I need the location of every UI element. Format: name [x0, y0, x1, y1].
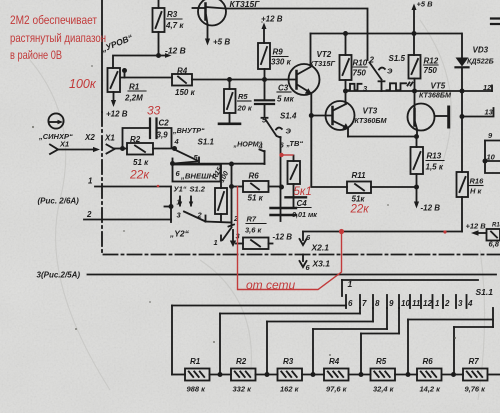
svg-text:Н к: Н к — [470, 187, 483, 196]
svg-text:11: 11 — [412, 299, 421, 308]
svg-text:S1.1: S1.1 — [476, 287, 494, 297]
svg-text:R5: R5 — [376, 357, 387, 366]
svg-text:4: 4 — [174, 137, 180, 146]
svg-text:C4: C4 — [297, 199, 308, 208]
svg-text:C2: C2 — [159, 119, 170, 128]
svg-text:R14: R14 — [492, 223, 500, 229]
svg-text:X1: X1 — [104, 134, 115, 143]
svg-text:3: 3 — [458, 299, 463, 308]
svg-text:(Рис. 2/6А): (Рис. 2/6А) — [38, 197, 80, 206]
svg-text:4,7 к: 4,7 к — [165, 21, 184, 30]
svg-text:-12 В: -12 В — [273, 233, 293, 242]
svg-text:R6: R6 — [249, 172, 260, 181]
svg-text:2: 2 — [197, 211, 203, 220]
svg-text:+12 В: +12 В — [261, 15, 283, 24]
svg-text:R4: R4 — [329, 357, 340, 366]
svg-text:1: 1 — [177, 200, 181, 207]
svg-text:R2: R2 — [236, 357, 247, 366]
svg-text:R2: R2 — [130, 135, 141, 144]
svg-text:162 к: 162 к — [280, 385, 300, 394]
svg-text:1,5 к: 1,5 к — [426, 163, 444, 172]
svg-text:22к: 22к — [350, 204, 370, 216]
svg-text:X3.1: X3.1 — [312, 259, 331, 269]
svg-text:X2: X2 — [84, 133, 95, 142]
svg-text:+5 В: +5 В — [417, 0, 434, 9]
svg-text:988 к: 988 к — [187, 385, 207, 394]
svg-text:VD3: VD3 — [473, 46, 489, 55]
svg-text:9: 9 — [389, 299, 394, 308]
svg-text:2,2М: 2,2М — [124, 94, 143, 103]
svg-text:R13: R13 — [427, 152, 442, 161]
svg-text:КТ315Г: КТ315Г — [230, 0, 261, 9]
svg-text:2М2 обеспечивает: 2М2 обеспечивает — [10, 13, 97, 27]
svg-text:„ВНУТР“: „ВНУТР“ — [172, 126, 205, 135]
svg-text:6,8: 6,8 — [489, 240, 500, 249]
svg-text:R11: R11 — [352, 171, 367, 180]
svg-text:растянутый диапазон: растянутый диапазон — [10, 31, 106, 45]
svg-text:X2.1: X2.1 — [311, 243, 330, 253]
svg-text:КТ360БМ: КТ360БМ — [355, 116, 388, 125]
svg-text:R12: R12 — [424, 57, 439, 66]
svg-text:1: 1 — [214, 238, 218, 247]
svg-text:3(Рис.2/5А): 3(Рис.2/5А) — [37, 271, 81, 280]
svg-text:S1.5: S1.5 — [389, 54, 406, 63]
svg-text:VT5: VT5 — [431, 82, 446, 91]
svg-text:32,4 к: 32,4 к — [373, 385, 395, 394]
svg-text:33: 33 — [147, 104, 161, 118]
svg-text:S1.1: S1.1 — [198, 138, 215, 147]
svg-text:VT2: VT2 — [317, 50, 332, 59]
svg-text:97,6 к: 97,6 к — [326, 385, 348, 394]
svg-text:3,9: 3,9 — [157, 131, 169, 140]
svg-text:У1“: У1“ — [174, 185, 187, 194]
svg-text:S1.4: S1.4 — [280, 112, 297, 121]
svg-text:10: 10 — [401, 299, 410, 308]
svg-text:R16: R16 — [470, 177, 485, 186]
svg-text:100к: 100к — [69, 77, 97, 91]
svg-text:2: 2 — [86, 210, 92, 219]
svg-text:R3: R3 — [167, 10, 178, 19]
svg-text:22к: 22к — [129, 168, 150, 182]
svg-text:R4: R4 — [177, 67, 188, 76]
svg-text:750: 750 — [353, 69, 367, 78]
svg-text:6: 6 — [348, 299, 353, 308]
svg-text:1: 1 — [88, 177, 93, 186]
svg-text:КТ315Г: КТ315Г — [309, 59, 335, 68]
svg-text:от сети: от сети — [246, 278, 296, 292]
svg-text:13: 13 — [485, 108, 494, 117]
svg-text:R10: R10 — [353, 59, 368, 68]
svg-text:R6: R6 — [423, 357, 434, 366]
svg-text:4: 4 — [258, 142, 264, 151]
svg-text:3,6 к: 3,6 к — [245, 226, 263, 235]
svg-text:1: 1 — [435, 299, 440, 308]
svg-text:+12 В: +12 В — [466, 222, 487, 231]
svg-text:750: 750 — [424, 66, 438, 75]
svg-text:20 к: 20 к — [237, 104, 253, 113]
svg-text:2: 2 — [369, 56, 375, 65]
svg-text:R1: R1 — [129, 83, 140, 92]
svg-text:X1: X1 — [59, 140, 69, 149]
svg-text:0,01 мк: 0,01 мк — [292, 210, 317, 219]
svg-text:9,76 к: 9,76 к — [465, 385, 487, 394]
svg-text:10: 10 — [487, 153, 496, 162]
svg-text:8: 8 — [375, 299, 380, 308]
svg-text:R1: R1 — [190, 357, 201, 366]
svg-text:51к: 51к — [352, 195, 366, 204]
svg-text:в районе 0В: в районе 0В — [10, 48, 62, 62]
svg-text:C3: C3 — [278, 84, 289, 93]
svg-text:7: 7 — [362, 299, 367, 308]
svg-text:150 к: 150 к — [175, 88, 196, 97]
svg-text:S1.2: S1.2 — [190, 185, 206, 194]
svg-text:Э: Э — [387, 67, 393, 76]
svg-text:-12 В: -12 В — [421, 204, 441, 213]
svg-text:12: 12 — [483, 83, 492, 92]
svg-text:+5 В: +5 В — [213, 38, 230, 47]
svg-text:51 к: 51 к — [133, 158, 149, 167]
svg-text:R7: R7 — [469, 357, 480, 366]
svg-text:5 мк: 5 мк — [277, 95, 295, 104]
svg-text:4: 4 — [467, 299, 473, 308]
svg-text:14,2 к: 14,2 к — [420, 385, 442, 394]
svg-text:2: 2 — [444, 299, 450, 308]
svg-text:332 к: 332 к — [233, 385, 253, 394]
svg-text:„Y2“: „Y2“ — [169, 229, 190, 239]
svg-text:1: 1 — [348, 279, 353, 289]
svg-text:12: 12 — [423, 299, 432, 308]
svg-text:330 к: 330 к — [271, 58, 292, 67]
svg-text:51 к: 51 к — [248, 194, 264, 203]
svg-text:-12 В: -12 В — [165, 46, 186, 56]
svg-text:R5: R5 — [238, 92, 248, 101]
svg-text:R3: R3 — [283, 357, 294, 366]
svg-text:Э: Э — [286, 127, 292, 136]
svg-text:R9: R9 — [273, 48, 284, 57]
svg-text:VT3: VT3 — [363, 107, 378, 116]
svg-text:+12 В: +12 В — [106, 110, 128, 119]
svg-text:„ТВ“: „ТВ“ — [286, 139, 304, 148]
svg-text:5к1: 5к1 — [294, 186, 312, 198]
svg-text:R7: R7 — [247, 215, 257, 224]
svg-text:КТ368БМ: КТ368БМ — [419, 91, 452, 100]
svg-text:КД522Б: КД522Б — [467, 57, 494, 66]
